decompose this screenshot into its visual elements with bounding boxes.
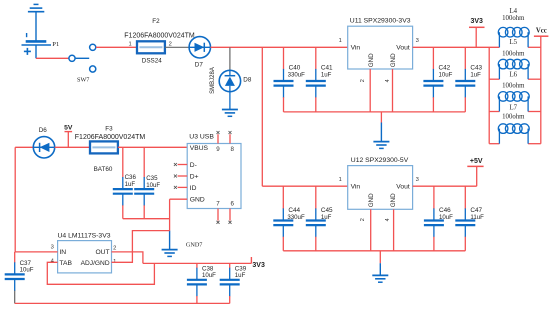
svg-text:SMBJ28A: SMBJ28A bbox=[210, 67, 216, 94]
svg-text:4: 4 bbox=[385, 79, 391, 82]
svg-text:2: 2 bbox=[360, 218, 366, 221]
wire U12 GND pin 4 bbox=[393, 209, 395, 251]
svg-text:GND7: GND7 bbox=[186, 241, 203, 248]
svg-text:F1206FA8000V024TM: F1206FA8000V024TM bbox=[124, 33, 195, 40]
power port Vcc bbox=[534, 28, 549, 37]
svg-text:U12 SPX29300-5V: U12 SPX29300-5V bbox=[351, 157, 409, 164]
svg-text:10uF: 10uF bbox=[202, 272, 216, 279]
net label 3V3 (bottom) bbox=[251, 257, 265, 269]
wire D6 to F3 bbox=[55, 146, 90, 148]
svg-text:GND: GND bbox=[368, 53, 375, 67]
diode D7 bbox=[189, 37, 210, 69]
svg-text:1: 1 bbox=[339, 38, 342, 44]
svg-text:100ohm: 100ohm bbox=[502, 114, 525, 121]
wire rail to U12 Vin bbox=[262, 185, 347, 187]
svg-text:Vout: Vout bbox=[396, 184, 410, 191]
capacitor C38 bbox=[187, 263, 207, 303]
svg-text:SW7: SW7 bbox=[77, 76, 89, 83]
wire U4 OUT step bbox=[112, 252, 143, 264]
wire U12 GND pin 2 bbox=[370, 209, 372, 251]
svg-text:U3 USB: U3 USB bbox=[189, 133, 214, 140]
pin 9 stub (nc) bbox=[217, 134, 219, 143]
svg-text:IN: IN bbox=[59, 249, 66, 256]
svg-text:3V3: 3V3 bbox=[252, 262, 265, 269]
wire U12 Vout bbox=[413, 185, 477, 187]
svg-text:11uF: 11uF bbox=[470, 214, 484, 221]
wire battery to switch bbox=[36, 57, 69, 59]
svg-text:C42: C42 bbox=[439, 65, 451, 72]
svg-text:1uF: 1uF bbox=[321, 214, 332, 221]
svg-text:1: 1 bbox=[339, 177, 342, 183]
svg-text:4: 4 bbox=[385, 218, 391, 221]
capacitor C46 bbox=[424, 186, 444, 251]
capacitor C36 bbox=[113, 147, 133, 218]
svg-text:L4: L4 bbox=[510, 8, 518, 15]
connector U3 USB bbox=[187, 133, 241, 208]
capacitor C40 bbox=[274, 47, 294, 112]
svg-text:VBUS: VBUS bbox=[190, 145, 209, 152]
wire U11 GND pin 2 bbox=[369, 69, 371, 113]
svg-text:1uF: 1uF bbox=[235, 272, 246, 279]
svg-text:2: 2 bbox=[169, 42, 172, 48]
wire U4 TAB loop bbox=[47, 262, 154, 284]
capacitor C44 bbox=[273, 186, 293, 251]
svg-text:330uF: 330uF bbox=[287, 214, 305, 221]
svg-text:1uF: 1uF bbox=[125, 181, 136, 188]
battery P1 bbox=[22, 33, 60, 58]
svg-text:U11 SPX29300-3V3: U11 SPX29300-3V3 bbox=[350, 18, 411, 25]
svg-text:C46: C46 bbox=[439, 207, 451, 214]
svg-text:TAB: TAB bbox=[59, 260, 72, 267]
TVS diode D8 bbox=[210, 67, 252, 94]
wire F2 to D7 (gray) bbox=[165, 46, 189, 48]
svg-text:D6: D6 bbox=[39, 127, 48, 134]
capacitor C41 bbox=[306, 47, 326, 112]
wire U12 ground rail bbox=[283, 250, 465, 252]
pin 8 stub (nc) bbox=[229, 134, 231, 143]
inductor L6 bbox=[489, 72, 541, 112]
fuse F2 bbox=[137, 41, 165, 53]
svg-text:ID: ID bbox=[190, 185, 197, 192]
svg-text:C40: C40 bbox=[289, 65, 301, 72]
diode D6 bbox=[33, 127, 54, 158]
svg-text:2: 2 bbox=[113, 245, 116, 251]
wire U11 ground rail bbox=[284, 111, 466, 113]
svg-text:DSS24: DSS24 bbox=[142, 58, 162, 65]
wire D7 to U11 Vin bbox=[211, 46, 348, 48]
svg-text:P1: P1 bbox=[52, 41, 59, 48]
wire bottom rail bbox=[15, 302, 230, 304]
svg-text:9: 9 bbox=[216, 146, 220, 153]
wire U4 OUT 3V3 rail bbox=[143, 262, 252, 264]
wire from D6 to left rail and down to U4 IN bbox=[15, 146, 33, 148]
svg-text:C43: C43 bbox=[470, 65, 482, 72]
wire left rail of bead network bbox=[488, 47, 490, 143]
pin D- stub (nc) bbox=[178, 164, 188, 166]
inductor L5 bbox=[489, 39, 541, 79]
wire U3 GND to GND7 node bbox=[170, 198, 188, 200]
svg-text:GND: GND bbox=[390, 53, 397, 67]
svg-text:100ohm: 100ohm bbox=[502, 50, 525, 57]
svg-text:Vin: Vin bbox=[351, 45, 361, 52]
svg-text:C44: C44 bbox=[288, 207, 300, 214]
svg-text:C41: C41 bbox=[321, 65, 333, 72]
op-amp U11 regulator box bbox=[339, 18, 419, 83]
wire U4 ADJ/GND riser bbox=[112, 231, 170, 263]
pin ID stub (nc) bbox=[178, 186, 188, 188]
svg-text:8: 8 bbox=[230, 146, 234, 153]
svg-text:10uF: 10uF bbox=[439, 214, 453, 221]
svg-text:Vcc: Vcc bbox=[536, 28, 547, 35]
wire switch to fuse F2 bbox=[96, 46, 137, 48]
power port 3V3 (top) bbox=[469, 18, 485, 47]
wire right rail of bead network / Vcc bbox=[540, 36, 542, 144]
svg-text:D7: D7 bbox=[195, 61, 204, 68]
inductor L4 bbox=[498, 8, 540, 48]
svg-text:OUT: OUT bbox=[95, 249, 109, 256]
svg-text:2: 2 bbox=[360, 79, 366, 82]
capacitor C42 bbox=[423, 47, 443, 112]
svg-text:10uF: 10uF bbox=[146, 182, 160, 189]
wire rail to ground bbox=[380, 112, 382, 123]
capacitor C47 bbox=[455, 186, 475, 251]
ground (inverted, above battery P1) bbox=[28, 4, 44, 40]
power port +5V bbox=[467, 158, 483, 186]
capacitor C39 bbox=[220, 263, 240, 303]
pin 6 stub (nc) bbox=[229, 209, 231, 221]
svg-text:7: 7 bbox=[216, 200, 220, 207]
capacitor C45 bbox=[306, 186, 326, 251]
inductor L7 bbox=[489, 104, 541, 143]
ground GND7 bbox=[162, 250, 178, 257]
svg-text:ADJ/GND: ADJ/GND bbox=[81, 260, 110, 267]
regulator U4 box bbox=[51, 233, 117, 273]
ground (U12 rail) bbox=[372, 275, 388, 282]
svg-text:5V: 5V bbox=[64, 124, 73, 131]
wire U11 GND pin 4 bbox=[392, 69, 394, 113]
pin D+ stub (nc) bbox=[178, 175, 188, 177]
regulator U12 box bbox=[339, 157, 419, 222]
svg-text:10uF: 10uF bbox=[20, 267, 34, 274]
svg-text:BAT60: BAT60 bbox=[94, 166, 113, 173]
svg-text:3: 3 bbox=[416, 38, 419, 44]
svg-text:F1206FA8000V024TM: F1206FA8000V024TM bbox=[75, 134, 146, 141]
wire F3 to U3 VBUS bbox=[118, 146, 187, 148]
svg-text:1uF: 1uF bbox=[470, 72, 481, 79]
wire U11 Vout bbox=[413, 46, 500, 48]
svg-text:D+: D+ bbox=[190, 174, 199, 181]
svg-text:U4 LM1117S-3V3: U4 LM1117S-3V3 bbox=[58, 233, 111, 240]
svg-text:100ohm: 100ohm bbox=[502, 83, 525, 90]
svg-text:C45: C45 bbox=[321, 207, 333, 214]
capacitor C43 bbox=[455, 47, 475, 112]
svg-text:100ohm: 100ohm bbox=[502, 15, 525, 22]
svg-text:4: 4 bbox=[51, 259, 55, 265]
capacitor C35 bbox=[134, 147, 154, 218]
svg-text:L7: L7 bbox=[510, 104, 518, 111]
wire C37 bottom (gray) bbox=[14, 292, 16, 304]
svg-text:3V3: 3V3 bbox=[470, 18, 483, 25]
svg-text:Vin: Vin bbox=[351, 184, 361, 191]
wire branch to U12 Vin rail bbox=[261, 47, 263, 186]
svg-text:3: 3 bbox=[51, 244, 54, 250]
svg-text:10uF: 10uF bbox=[439, 72, 453, 79]
wire U4 IN bbox=[15, 251, 57, 253]
svg-text:D-: D- bbox=[190, 162, 197, 169]
svg-text:F3: F3 bbox=[105, 125, 113, 132]
svg-text:C47: C47 bbox=[470, 207, 482, 214]
fuse F3 bbox=[90, 141, 118, 153]
svg-text:6: 6 bbox=[230, 200, 234, 207]
ground (below D8) bbox=[222, 110, 238, 117]
switch SW7 bbox=[69, 44, 96, 83]
svg-text:+5V: +5V bbox=[470, 158, 483, 165]
svg-text:GND: GND bbox=[190, 197, 205, 204]
svg-text:GND: GND bbox=[368, 193, 375, 207]
capacitor C37 bbox=[5, 252, 25, 292]
svg-text:GND: GND bbox=[390, 193, 397, 207]
svg-text:330uF: 330uF bbox=[288, 72, 306, 79]
svg-text:3: 3 bbox=[416, 177, 419, 183]
svg-text:1: 1 bbox=[129, 42, 132, 48]
ground (U11 rail) bbox=[373, 142, 389, 149]
svg-text:1uF: 1uF bbox=[321, 72, 332, 79]
wire C36/C35 ground rail bbox=[123, 218, 170, 220]
svg-text:L5: L5 bbox=[510, 39, 518, 46]
pin 7 stub (nc) bbox=[217, 209, 219, 221]
svg-text:L6: L6 bbox=[510, 72, 518, 79]
svg-text:Vout: Vout bbox=[396, 45, 410, 52]
wire rail to U12 ground bbox=[379, 251, 381, 263]
wire junction to D8 (gray) bbox=[229, 47, 231, 70]
svg-text:D8: D8 bbox=[243, 77, 252, 84]
svg-text:F2: F2 bbox=[152, 18, 160, 25]
wire D8 to ground bbox=[229, 92, 231, 110]
power port 5V bbox=[64, 124, 73, 147]
